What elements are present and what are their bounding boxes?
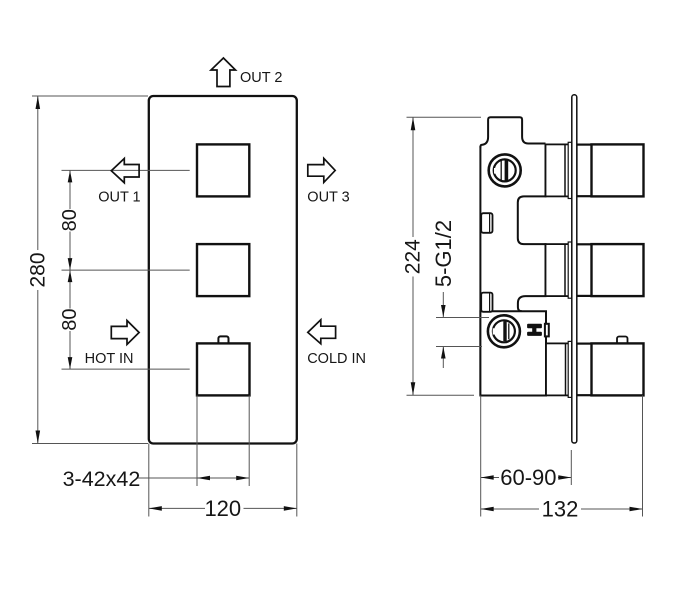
dim 280 arrow up [36, 96, 41, 109]
test plug 2 notch [493, 328, 497, 334]
svg-text:COLD IN: COLD IN [307, 351, 366, 367]
test plug 1 notch [494, 168, 498, 174]
dim 42x42 arrow left [197, 476, 210, 481]
svg-text:OUT 2: OUT 2 [240, 70, 282, 86]
cartridge row 3 [546, 343, 592, 395]
dim 120 extension right [296, 444, 298, 517]
test plug 2 inner [493, 320, 515, 342]
dim 280 extension bottom [32, 443, 148, 445]
dim 5-G1/2 leader lower [442, 347, 444, 369]
dim 120 extension left [148, 444, 150, 517]
dim 132 line [481, 508, 539, 510]
dim 80 lower line [69, 270, 71, 308]
dim 224 line [412, 117, 414, 237]
dim 132 arrow right [630, 507, 643, 512]
handle square 3 [197, 343, 250, 395]
OUT 2 arrow [211, 58, 236, 87]
row centerline 3 [62, 368, 190, 370]
cartridge 2 flange line [564, 244, 566, 296]
dim 5-G1/2 arrow down [441, 305, 446, 317]
svg-text:HOT IN: HOT IN [85, 351, 134, 367]
OUT 3 arrow [308, 158, 335, 182]
dim 42x42 arrow right [236, 476, 249, 481]
test plug 2 slot bar [503, 321, 506, 341]
svg-text:80: 80 [59, 209, 81, 231]
stem row 1 [577, 145, 592, 196]
dim 5-G1/2 arrow up [441, 347, 446, 359]
handle square 1 [197, 144, 249, 196]
test plug 2 slot right line [508, 323, 510, 339]
svg-text:280: 280 [26, 252, 49, 287]
dim 42x42 extension right [248, 395, 250, 486]
row centerline 1 [62, 169, 190, 171]
svg-text:OUT 1: OUT 1 [98, 189, 140, 205]
cartridge row 2 [546, 244, 592, 296]
dim 60-90 extension right [570, 450, 572, 485]
stem row 2 [577, 245, 592, 296]
dim 224 extension top [407, 116, 482, 118]
dim 42x42 extension left [196, 395, 198, 486]
dim 42x42 line [138, 477, 250, 479]
dim 80 upper arrows [68, 170, 73, 182]
svg-text:224: 224 [401, 239, 424, 274]
test plug 1 inner [494, 159, 516, 181]
svg-text:5-G1/2: 5-G1/2 [431, 220, 456, 287]
dim 60-90 arrow left [481, 475, 494, 480]
svg-text:3-42x42: 3-42x42 [63, 467, 141, 491]
cartridge 1 flange line [564, 144, 566, 196]
dim 132 arrow left [481, 507, 494, 512]
HOT IN arrow [111, 321, 139, 345]
dim 120 arrow right [284, 506, 297, 511]
square 3 button tab [218, 336, 228, 345]
svg-text:132: 132 [542, 497, 579, 522]
body right edge with notches [518, 144, 546, 312]
side port boss A [481, 213, 492, 233]
svg-text:OUT 3: OUT 3 [307, 189, 349, 205]
svg-text:80: 80 [59, 308, 81, 330]
small boss on body right edge [545, 324, 549, 337]
dim 60-90 extension left / dim 132 shared [480, 396, 482, 517]
dim 132 extension right [642, 395, 644, 516]
dim 224 arrow up [411, 117, 416, 130]
stem row 3 [577, 344, 592, 395]
port centerline lower [436, 346, 482, 348]
dim 224 arrow down [411, 382, 416, 395]
COLD IN arrow [308, 320, 336, 344]
dim 120 line [149, 507, 205, 509]
row centerline 2 [62, 269, 190, 271]
test plug 1 slot bar [505, 160, 509, 180]
cartridge row 1 [546, 144, 592, 196]
dim 224 extension bottom [407, 394, 475, 396]
OUT 1 arrow [111, 159, 139, 183]
side port boss B [481, 293, 492, 312]
body top narrow block with flares [480, 117, 545, 147]
handle 3 button tab [617, 337, 628, 346]
test plug 1 outer ring [489, 154, 521, 186]
svg-text:60-90: 60-90 [500, 465, 556, 490]
body lower block [480, 311, 546, 395]
wall plate [572, 95, 577, 443]
cartridge 3 flange line [565, 343, 567, 395]
handle row 2 [592, 244, 644, 296]
handle row 1 [592, 144, 644, 196]
handle row 3 [592, 343, 644, 395]
test plug 1 slot left edge [500, 160, 502, 181]
dim 80 upper line [69, 170, 71, 209]
dim 280 line [37, 96, 39, 250]
dim 80 lower arrows [68, 270, 73, 282]
body left edge [479, 146, 481, 396]
handle square 2 [197, 244, 249, 296]
dim 120 arrow left [149, 506, 162, 511]
hot marker H [527, 324, 542, 336]
svg-text:120: 120 [204, 496, 241, 521]
port centerline upper [436, 317, 489, 319]
faceplate outline [149, 96, 297, 444]
dim 60-90 arrow right [558, 475, 571, 480]
test plug 2 outer ring [488, 315, 520, 347]
dim 280 arrow down [36, 431, 41, 444]
dim 5-G1/2 leader upper [442, 292, 444, 317]
dim 60-90 line [481, 477, 499, 479]
dim 280 extension top [32, 95, 148, 97]
